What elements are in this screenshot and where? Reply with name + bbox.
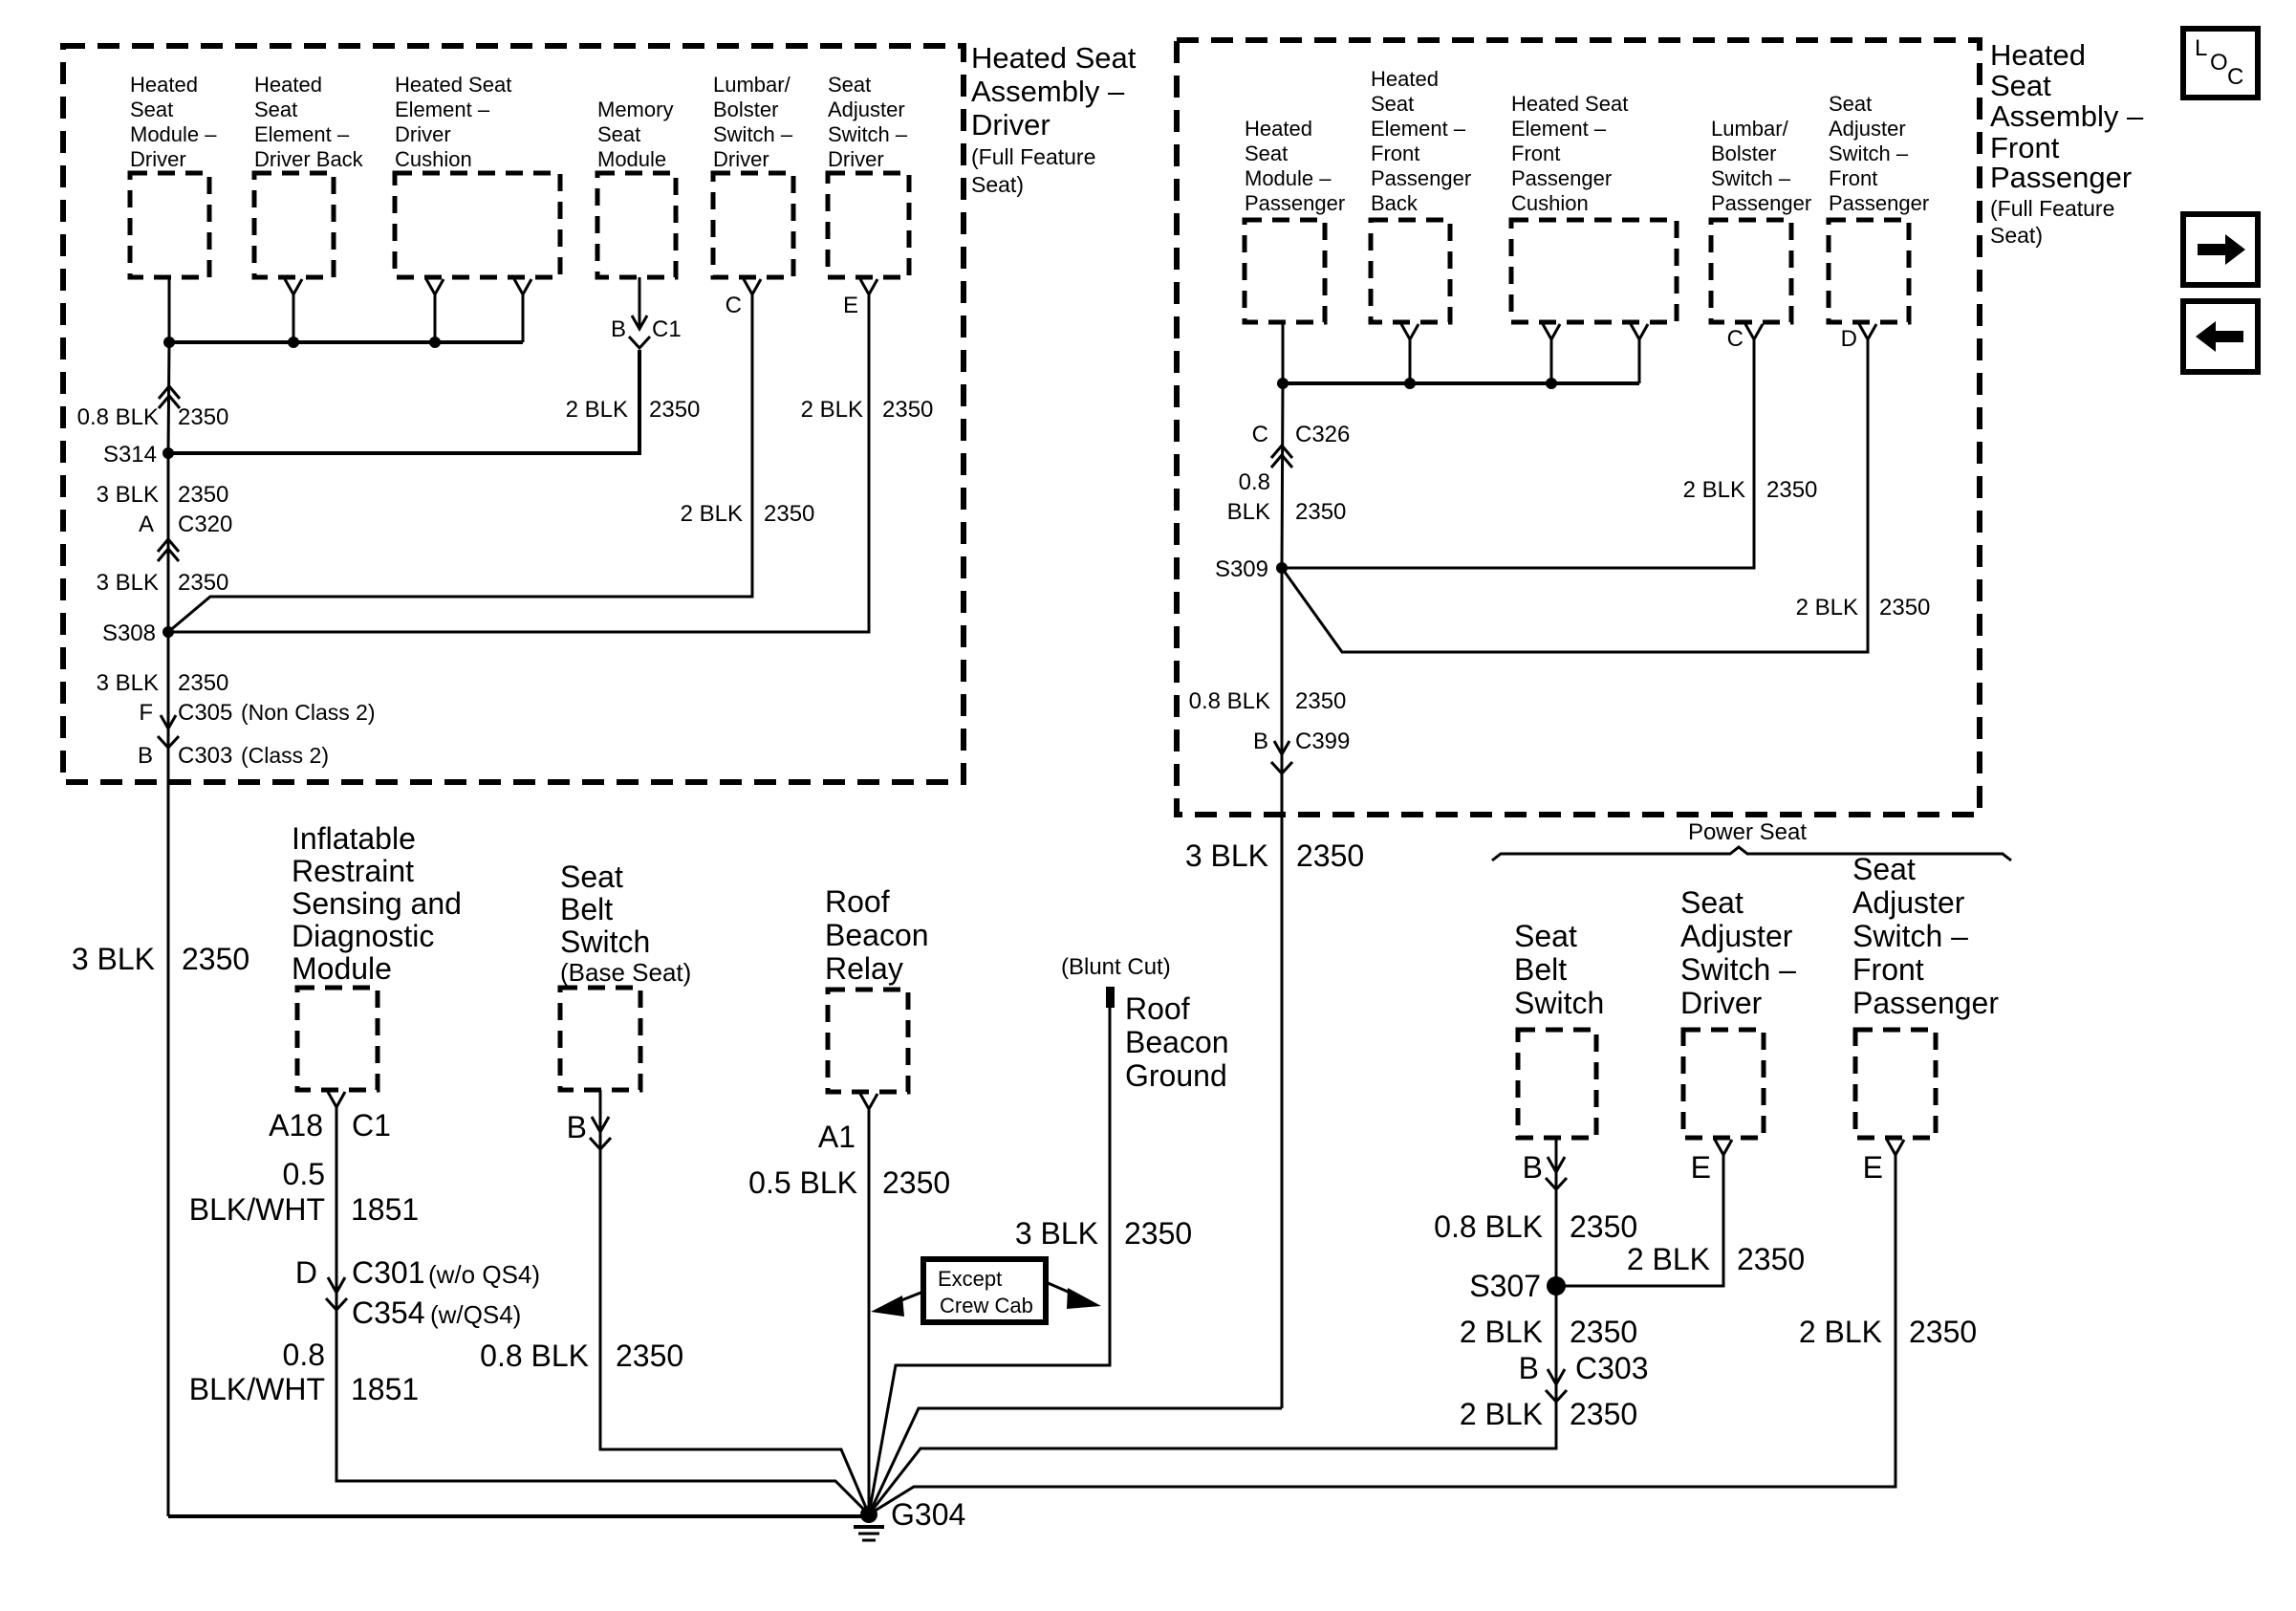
svg-text:C: C <box>1727 326 1744 352</box>
svg-text:Memory: Memory <box>597 98 673 121</box>
pin arrow seat adjuster switch E <box>860 279 877 294</box>
splice S314 <box>103 442 174 468</box>
svg-text:2350: 2350 <box>1570 1209 1637 1244</box>
label 0.5 BLK/WHT 1851 <box>189 1157 419 1227</box>
svg-text:2350: 2350 <box>882 397 933 423</box>
label 0.8 BLK 2350 passenger lower <box>1189 688 1347 714</box>
svg-text:2350: 2350 <box>616 1339 683 1373</box>
svg-text:Lumbar/: Lumbar/ <box>713 73 791 97</box>
wire seat adjuster driver to S307 <box>1556 1155 1723 1286</box>
svg-text:B: B <box>138 743 153 769</box>
svg-text:S309: S309 <box>1215 556 1268 582</box>
svg-text:0.8 BLK: 0.8 BLK <box>1434 1209 1543 1244</box>
svg-text:D: D <box>295 1255 317 1290</box>
splice S309 <box>1215 556 1288 582</box>
svg-text:0.8 BLK: 0.8 BLK <box>1189 688 1270 714</box>
svg-text:3 BLK: 3 BLK <box>97 570 159 596</box>
splice S308 <box>102 620 174 646</box>
svg-text:Driver: Driver <box>1680 986 1763 1020</box>
svg-text:Passenger: Passenger <box>1371 166 1471 190</box>
label 2 BLK 2350 lumbar wire <box>681 501 815 527</box>
svg-text:A18: A18 <box>269 1108 323 1143</box>
splice S307 <box>1469 1269 1566 1303</box>
svg-text:3 BLK: 3 BLK <box>97 482 159 508</box>
svg-text:Bolster: Bolster <box>1711 142 1776 165</box>
svg-text:3 BLK: 3 BLK <box>1015 1216 1098 1251</box>
wire passenger 3BLK to ground fan <box>869 1408 1282 1514</box>
svg-text:E: E <box>843 293 858 318</box>
svg-text:Switch –: Switch – <box>828 122 908 146</box>
svg-text:0.8: 0.8 <box>1239 469 1270 495</box>
ground G304 <box>854 1497 965 1540</box>
label 3 BLK 2350 lower <box>97 670 229 696</box>
svg-text:E: E <box>1863 1150 1883 1185</box>
svg-text:Heated Seat: Heated Seat <box>1511 92 1628 116</box>
svg-text:Restraint: Restraint <box>292 854 414 888</box>
svg-text:C1: C1 <box>352 1108 391 1143</box>
label 3 BLK 2350 main ground wire <box>72 942 249 976</box>
component Lumbar/Bolster Switch - Passenger <box>1711 117 1811 322</box>
svg-text:Belt: Belt <box>560 892 613 926</box>
svg-text:C1: C1 <box>652 316 682 342</box>
svg-text:Seat: Seat <box>1990 69 2051 102</box>
svg-text:2350: 2350 <box>1124 1216 1192 1251</box>
svg-text:2350: 2350 <box>1570 1397 1637 1431</box>
svg-text:Inflatable: Inflatable <box>292 821 416 856</box>
label 0.8 BLK 2350 seat belt right <box>1434 1209 1637 1244</box>
svg-text:Front: Front <box>1990 131 2060 164</box>
svg-text:B: B <box>611 316 626 342</box>
svg-text:2 BLK: 2 BLK <box>801 397 863 423</box>
svg-text:C301: C301 <box>352 1255 425 1290</box>
svg-text:(w/o QS4): (w/o QS4) <box>428 1260 540 1289</box>
connector B C303 <box>138 743 329 769</box>
wire seat belt base down <box>600 1090 869 1514</box>
svg-text:Module –: Module – <box>1245 166 1332 190</box>
label 2 BLK 2350 below S307 <box>1460 1315 1637 1349</box>
connector D C301 C354 <box>295 1255 540 1330</box>
svg-text:Seat: Seat <box>254 98 297 121</box>
connector B C399 <box>1253 729 1350 773</box>
pin arrow element fp cushion pin2 <box>1631 324 1648 383</box>
junction dot bus at cushion element <box>429 337 441 348</box>
connector chevrons up on main wire <box>159 386 180 408</box>
svg-text:(w/QS4): (w/QS4) <box>430 1300 521 1329</box>
svg-text:Adjuster: Adjuster <box>1852 885 1965 920</box>
wire ground bus driver seat <box>169 340 523 344</box>
svg-text:2350: 2350 <box>1295 688 1346 714</box>
svg-text:B: B <box>1523 1150 1543 1185</box>
svg-text:2350: 2350 <box>1737 1242 1805 1276</box>
label 0.8 BLK 2350 seat belt base <box>480 1339 683 1373</box>
pin arrow IRSDM A18 <box>328 1092 345 1107</box>
svg-text:Diagnostic: Diagnostic <box>292 919 434 953</box>
svg-text:Heated: Heated <box>1371 67 1439 91</box>
svg-text:2350: 2350 <box>182 942 249 976</box>
component Inflatable Restraint Sensing and Diagnostic Module <box>292 821 462 1090</box>
pin arrow element driver cushion pin2 <box>514 279 531 342</box>
wire roof beacon ground to G304 <box>869 1008 1110 1514</box>
svg-text:Front: Front <box>1371 142 1419 165</box>
connector A18 C1 <box>269 1108 391 1143</box>
svg-text:Driver: Driver <box>130 147 186 171</box>
svg-text:C399: C399 <box>1295 729 1350 754</box>
svg-text:2 BLK: 2 BLK <box>1460 1397 1543 1431</box>
svg-text:BLK: BLK <box>1227 499 1270 525</box>
svg-text:Relay: Relay <box>825 951 903 986</box>
pin arrow relay A1 <box>860 1094 877 1109</box>
component Heated Seat Element - Front Passenger Back <box>1371 67 1471 322</box>
label 2 BLK 2350 memory wire <box>566 397 701 423</box>
label 0.8 BLK 2350 <box>77 404 229 430</box>
svg-text:0.5: 0.5 <box>283 1157 325 1191</box>
svg-text:Seat): Seat) <box>1990 223 2043 248</box>
svg-text:Front: Front <box>1852 952 1924 987</box>
svg-text:0.8 BLK: 0.8 BLK <box>77 404 159 430</box>
connector F C305 <box>139 700 375 748</box>
icon back arrow box <box>2183 301 2258 372</box>
svg-text:Assembly –: Assembly – <box>1990 99 2144 133</box>
svg-text:Passenger: Passenger <box>1245 191 1345 215</box>
svg-text:0.8: 0.8 <box>283 1338 325 1372</box>
svg-text:C: C <box>2227 64 2243 90</box>
title Heated Seat Assembly - Front Passenger <box>1990 38 2144 248</box>
svg-text:Assembly –: Assembly – <box>971 75 1125 108</box>
svg-text:Switch –: Switch – <box>1852 919 1968 953</box>
component Seat Adjuster Switch - Front Passenger top <box>1829 92 1929 322</box>
svg-text:Passenger: Passenger <box>1711 191 1811 215</box>
svg-text:S307: S307 <box>1469 1269 1541 1303</box>
svg-text:Bolster: Bolster <box>713 98 778 121</box>
svg-text:Heated Seat: Heated Seat <box>395 73 511 97</box>
svg-text:Heated Seat: Heated Seat <box>971 41 1137 75</box>
svg-text:Sensing and: Sensing and <box>292 886 462 921</box>
svg-text:Module: Module <box>292 951 392 986</box>
wire lumbar switch down to S308 <box>168 294 752 632</box>
svg-text:2 BLK: 2 BLK <box>1627 1242 1710 1276</box>
pin arrow seat adjuster driver E <box>1715 1140 1732 1155</box>
svg-text:2350: 2350 <box>764 501 814 527</box>
wire HSM passenger to ground bus <box>1282 322 1285 383</box>
svg-text:S308: S308 <box>102 620 156 646</box>
svg-text:2350: 2350 <box>178 482 228 508</box>
connector B seat belt base <box>567 1110 611 1149</box>
svg-text:2 BLK: 2 BLK <box>1683 477 1745 503</box>
svg-text:Adjuster: Adjuster <box>828 98 905 121</box>
label 0.8 BLK/WHT 1851 <box>189 1338 419 1406</box>
component Roof Beacon Relay <box>825 884 929 1092</box>
pin arrow element driver back <box>285 279 302 342</box>
component Seat Belt Switch right <box>1514 919 1604 1138</box>
label 2 BLK 2350 adjuster fp bottom <box>1799 1315 1977 1349</box>
label 0.8 BLK 2350 passenger upper <box>1227 469 1347 525</box>
svg-text:Seat: Seat <box>1514 919 1577 953</box>
svg-text:Seat: Seat <box>1245 142 1288 165</box>
pin arrow element driver cushion pin1 <box>426 279 444 342</box>
svg-text:D: D <box>1841 326 1857 352</box>
svg-text:3 BLK: 3 BLK <box>97 670 159 696</box>
svg-text:Element –: Element – <box>1371 117 1466 141</box>
svg-text:F: F <box>139 700 153 726</box>
svg-text:S314: S314 <box>103 442 157 468</box>
svg-text:Seat: Seat <box>597 122 640 146</box>
node Roof Beacon Ground <box>1125 991 1229 1093</box>
svg-text:Driver: Driver <box>395 122 451 146</box>
svg-text:3 BLK: 3 BLK <box>1185 838 1268 873</box>
svg-text:2350: 2350 <box>1909 1315 1977 1349</box>
component Seat Belt Switch (Base Seat) <box>560 860 691 1090</box>
svg-text:1851: 1851 <box>351 1372 419 1406</box>
component Heated Seat Module - Passenger <box>1245 117 1345 322</box>
svg-text:Seat: Seat <box>130 98 173 121</box>
svg-text:2350: 2350 <box>1879 595 1930 620</box>
component Seat Adjuster Switch - Front Passenger bottom <box>1852 852 1999 1138</box>
svg-text:Passenger: Passenger <box>1511 166 1612 190</box>
svg-text:Seat: Seat <box>1680 885 1744 920</box>
svg-text:Adjuster: Adjuster <box>1680 919 1793 953</box>
svg-text:0.8 BLK: 0.8 BLK <box>480 1339 589 1373</box>
label 2 BLK 2350 exit C303 <box>1460 1397 1637 1431</box>
svg-text:C: C <box>1252 422 1268 447</box>
svg-text:2350: 2350 <box>1295 499 1346 525</box>
svg-text:E: E <box>1691 1150 1711 1185</box>
wire HSM driver to ground bus <box>168 277 171 342</box>
svg-text:Except: Except <box>938 1267 1002 1291</box>
svg-text:Seat: Seat <box>1829 92 1872 116</box>
wire main S314 to S308 <box>167 453 170 632</box>
svg-text:Roof: Roof <box>1125 991 1190 1026</box>
brace power seat group <box>1492 847 2011 860</box>
svg-text:Heated: Heated <box>130 73 198 97</box>
svg-text:BLK/WHT: BLK/WHT <box>189 1372 325 1406</box>
svg-text:Element –: Element – <box>1511 117 1607 141</box>
label 2 BLK 2350 adjuster driver <box>1627 1242 1805 1276</box>
wire passenger module down from bus <box>1282 383 1283 568</box>
label 2 BLK 2350 adjuster wire <box>801 397 934 423</box>
junction dot bus at fp back element <box>1404 378 1416 389</box>
svg-text:Module –: Module – <box>130 122 217 146</box>
svg-text:Element –: Element – <box>395 98 490 121</box>
icon LOC box <box>2183 29 2258 98</box>
blunt cut terminal <box>1106 987 1115 1008</box>
svg-text:(Full Feature: (Full Feature <box>971 144 1095 169</box>
svg-text:(Blunt Cut): (Blunt Cut) <box>1061 954 1171 980</box>
wire memory module pin B <box>639 277 641 329</box>
svg-text:Belt: Belt <box>1514 952 1567 987</box>
svg-text:A: A <box>139 512 154 537</box>
svg-text:A1: A1 <box>818 1120 856 1154</box>
svg-text:Seat: Seat <box>828 73 871 97</box>
svg-text:C303: C303 <box>178 743 232 769</box>
pin arrow lumbar bolster switch C <box>744 279 761 294</box>
component Memory Seat Module <box>597 98 676 277</box>
label 3 BLK 2350 mid <box>97 570 229 596</box>
svg-text:Switch –: Switch – <box>713 122 793 146</box>
svg-text:Driver: Driver <box>713 147 769 171</box>
svg-text:0.5 BLK: 0.5 BLK <box>748 1165 857 1200</box>
connector C C326 <box>1252 422 1351 468</box>
svg-text:2350: 2350 <box>1766 477 1817 503</box>
pin arrow lumbar passenger C <box>1745 324 1763 339</box>
pin arrow element fp back <box>1401 324 1419 383</box>
svg-text:Passenger: Passenger <box>1829 191 1929 215</box>
junction dot bus at fp cushion element <box>1546 378 1557 389</box>
svg-text:BLK/WHT: BLK/WHT <box>189 1192 325 1227</box>
wire relay to ground <box>868 1109 871 1514</box>
svg-text:Roof: Roof <box>825 884 890 919</box>
junction dot bus at HSM <box>163 337 175 348</box>
svg-text:(Class 2): (Class 2) <box>241 743 329 768</box>
wire seat adjuster fp to S309 diagonal <box>1282 339 1868 652</box>
svg-text:Cushion: Cushion <box>395 147 472 171</box>
svg-text:2 BLK: 2 BLK <box>1460 1315 1543 1349</box>
svg-text:Ground: Ground <box>1125 1058 1227 1093</box>
svg-text:2350: 2350 <box>1296 838 1364 873</box>
svg-text:Crew Cab: Crew Cab <box>940 1294 1033 1317</box>
svg-text:Adjuster: Adjuster <box>1829 117 1906 141</box>
connector B C1 arrow <box>611 316 682 348</box>
svg-text:Passenger: Passenger <box>1852 986 1999 1020</box>
svg-text:C305: C305 <box>178 700 232 726</box>
svg-text:Beacon: Beacon <box>1125 1025 1229 1059</box>
svg-text:Module: Module <box>597 147 666 171</box>
svg-text:G304: G304 <box>891 1497 965 1532</box>
wire seat belt right down to S307 <box>1555 1138 1558 1286</box>
wire main to ground bottom <box>168 1514 869 1518</box>
junction dot bus at back element <box>288 337 299 348</box>
svg-text:(Non Class 2): (Non Class 2) <box>241 700 376 725</box>
wire ground bus passenger seat <box>1283 381 1639 385</box>
svg-text:Front: Front <box>1829 166 1877 190</box>
wire S307 down to ground fan <box>869 1286 1556 1514</box>
svg-text:Switch: Switch <box>560 925 650 959</box>
svg-text:Back: Back <box>1371 191 1419 215</box>
svg-text:Heated: Heated <box>1990 38 2086 72</box>
connector A C320 <box>139 512 232 561</box>
callout Except Crew Cab <box>871 1259 1101 1322</box>
svg-text:2350: 2350 <box>882 1165 950 1200</box>
wire seat adjuster fp to ground fan <box>869 1155 1895 1514</box>
svg-text:2350: 2350 <box>178 670 228 696</box>
label 0.5 BLK 2350 relay <box>748 1165 950 1200</box>
pin arrow element fp cushion pin1 <box>1543 324 1560 383</box>
svg-text:Heated: Heated <box>1245 117 1312 141</box>
svg-text:Driver Back: Driver Back <box>254 147 364 171</box>
svg-text:2350: 2350 <box>178 404 228 430</box>
wire lumbar passenger to S309 <box>1282 339 1754 568</box>
svg-text:2 BLK: 2 BLK <box>1796 595 1858 620</box>
svg-text:2 BLK: 2 BLK <box>681 501 743 527</box>
connector B seat belt right <box>1523 1150 1567 1189</box>
svg-text:(Base Seat): (Base Seat) <box>560 958 691 987</box>
svg-text:C303: C303 <box>1575 1351 1649 1385</box>
pin arrow seat adjuster fp E bottom <box>1887 1140 1904 1155</box>
svg-text:Switch –: Switch – <box>1680 952 1796 987</box>
junction dot bus at HSM passenger <box>1277 378 1289 389</box>
wire IRSDM down <box>336 1107 869 1514</box>
svg-text:Power Seat: Power Seat <box>1688 819 1807 845</box>
svg-text:(Full Feature: (Full Feature <box>1990 196 2114 221</box>
assembly box Heated Seat Assembly - Front Passenger <box>1177 40 1980 815</box>
component Seat Adjuster Switch - Driver <box>828 73 909 277</box>
svg-text:Passenger: Passenger <box>1990 161 2132 194</box>
wire main ground down from bus <box>168 342 169 453</box>
pin arrow seat adjuster fp D <box>1859 324 1876 339</box>
svg-text:C326: C326 <box>1295 422 1350 447</box>
svg-text:1851: 1851 <box>351 1192 419 1227</box>
component Lumbar/Bolster Switch - Driver <box>713 73 793 277</box>
assembly box Heated Seat Assembly - Driver <box>63 46 964 782</box>
svg-text:L: L <box>2195 35 2207 61</box>
icon forward arrow box <box>2183 214 2258 285</box>
svg-text:2 BLK: 2 BLK <box>1799 1315 1882 1349</box>
label 2 BLK 2350 lumbar passenger <box>1683 477 1818 503</box>
svg-text:2 BLK: 2 BLK <box>566 397 628 423</box>
svg-text:Seat: Seat <box>1371 92 1414 116</box>
svg-text:Front: Front <box>1511 142 1560 165</box>
svg-text:Seat: Seat <box>1852 852 1916 886</box>
svg-text:Heated: Heated <box>254 73 322 97</box>
svg-text:Switch: Switch <box>1514 986 1604 1020</box>
wire seat adjuster down to S308 <box>168 294 869 632</box>
svg-text:O: O <box>2210 50 2228 76</box>
connector B C303 lower <box>1519 1351 1649 1402</box>
label 2 BLK 2350 adjuster fp <box>1796 595 1931 620</box>
component U1 Heated Seat Module - Driver <box>130 73 217 277</box>
svg-text:B: B <box>1519 1351 1539 1385</box>
title Heated Seat Assembly - Driver <box>971 41 1137 197</box>
label 3 BLK 2350 upper <box>97 482 229 508</box>
svg-text:C320: C320 <box>178 512 232 537</box>
svg-text:B: B <box>567 1110 587 1144</box>
svg-text:C: C <box>726 293 742 318</box>
svg-text:2350: 2350 <box>178 570 228 596</box>
svg-text:Driver: Driver <box>971 108 1051 142</box>
svg-text:Driver: Driver <box>828 147 884 171</box>
label 3 BLK 2350 roof beacon ground <box>1015 1216 1192 1251</box>
svg-text:2350: 2350 <box>1570 1315 1637 1349</box>
svg-text:Lumbar/: Lumbar/ <box>1711 117 1789 141</box>
label 3 BLK 2350 passenger exit <box>1185 838 1364 873</box>
svg-text:Switch –: Switch – <box>1829 142 1909 165</box>
svg-text:Seat): Seat) <box>971 172 1024 197</box>
svg-text:C354: C354 <box>352 1295 425 1330</box>
component Heated Seat Element - Driver Cushion <box>395 73 560 277</box>
svg-text:2350: 2350 <box>649 397 700 423</box>
wire passenger module below S309 exits assembly <box>1281 568 1284 1408</box>
svg-text:3 BLK: 3 BLK <box>72 942 155 976</box>
component Heated Seat Element - Front Passenger Cushion <box>1511 92 1677 322</box>
wire main below S308 exits assembly <box>167 632 170 1516</box>
svg-text:Switch –: Switch – <box>1711 166 1791 190</box>
wire S314 to memory seat module <box>168 350 639 453</box>
svg-text:Beacon: Beacon <box>825 918 929 952</box>
component Seat Adjuster Switch - Driver bottom <box>1680 885 1796 1138</box>
svg-text:Cushion: Cushion <box>1511 191 1589 215</box>
svg-text:Seat: Seat <box>560 860 623 894</box>
svg-text:B: B <box>1253 729 1268 754</box>
svg-text:Element –: Element – <box>254 122 350 146</box>
component Heated Seat Element - Driver Back <box>254 73 364 277</box>
